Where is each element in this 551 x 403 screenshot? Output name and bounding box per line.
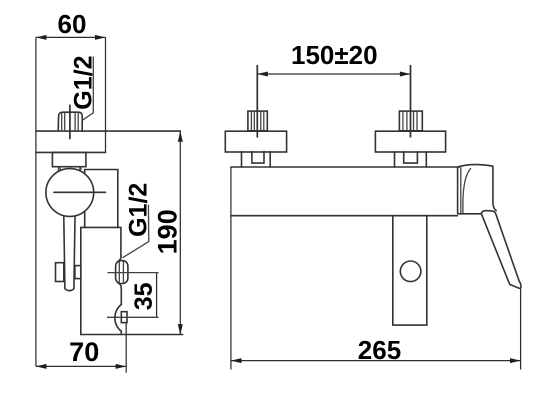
upper outlet neck bottom	[118, 283, 121, 305]
shower outlet drop tube	[393, 216, 427, 325]
arrow right of dim 70	[116, 364, 127, 369]
left inlet threaded block	[248, 111, 267, 131]
handle cap bottom line	[458, 213, 481, 215]
wire: long left vertical (extension line for 60 and 70, wall plate left edge)	[35, 37, 37, 366]
wire: 265 right extension	[520, 288, 522, 370]
right block thread lines	[403, 111, 417, 131]
left nipple inner U	[252, 152, 264, 164]
handle lever	[481, 211, 521, 289]
handle cap left edges	[457, 167, 459, 213]
faucet body top line	[231, 166, 460, 168]
arrow left of dim 60	[36, 35, 47, 40]
left block thread lines	[251, 111, 263, 131]
handle cap inner curve	[463, 168, 471, 213]
flange below plate	[52, 152, 86, 166]
fitting thread lines	[62, 112, 78, 131]
dimension 150±20 line	[257, 73, 410, 75]
lower body bottom right corner piece	[120, 331, 122, 334]
upper body rectangle	[85, 170, 118, 228]
arrow up of dim 190	[178, 131, 183, 142]
svg-text:60: 60	[58, 9, 87, 39]
arrow down of dim 190	[178, 324, 183, 335]
right nipple outer	[394, 152, 396, 167]
lower body right edge upper part	[120, 227, 122, 256]
dimension 35 vertical line	[156, 273, 158, 318]
wire: left inlet centerline	[256, 65, 258, 138]
handle boss right	[75, 266, 81, 279]
dimension 190 vertical line	[179, 131, 181, 335]
lower body left edge	[80, 227, 82, 334]
wire: body left edge + 265 left extension	[230, 167, 232, 370]
wire: right extension of 60 / plate right edge	[105, 37, 107, 152]
svg-text:35: 35	[130, 282, 158, 310]
wall plate bottom line	[36, 151, 106, 153]
svg-text:265: 265	[358, 335, 401, 365]
dimension 265 line	[231, 360, 521, 362]
svg-text:150±20: 150±20	[291, 40, 378, 70]
arrow left of dim 265	[231, 358, 242, 363]
upper outlet capsule (threaded, side)	[116, 261, 128, 284]
inlet fitting (side view, threaded)	[58, 112, 82, 131]
right nipple inner U	[404, 152, 418, 163]
upper outlet centerline	[108, 272, 159, 274]
knob centerline horizontal	[54, 191, 106, 193]
dimension 60 line	[36, 36, 106, 38]
handle rod	[64, 217, 75, 291]
lower outlet dome arc	[115, 305, 121, 332]
arrow right of dim 265	[510, 358, 521, 363]
right eccentric flange	[375, 131, 445, 152]
wire: right inlet centerline	[410, 65, 412, 138]
dimension 70 line	[36, 365, 126, 367]
upper outlet neck top	[118, 256, 121, 261]
arrow right of dim 150	[400, 72, 411, 77]
fitting centerline	[69, 105, 71, 140]
wall plate top line (extends right as 190 extension)	[36, 130, 181, 132]
body bottom line (extends right as 190 extension)	[81, 334, 183, 336]
right inlet threaded block	[399, 111, 422, 131]
left nipple outer	[241, 152, 243, 167]
valve knob circle	[46, 169, 94, 217]
lower outlet centerline	[107, 316, 158, 318]
handle boss left	[56, 263, 64, 282]
arrow left of dim 70	[36, 364, 47, 369]
svg-text:190: 190	[153, 209, 183, 254]
arrow right of dim 60	[95, 35, 106, 40]
capsule thread lines	[118, 261, 120, 283]
arrow left of dim 150	[257, 72, 268, 77]
tube circle detail	[400, 261, 421, 282]
handle cap outline	[458, 165, 497, 211]
leader for G1/2 lower	[123, 205, 149, 258]
lower outlet nipple rect	[121, 312, 127, 323]
wire: 70 right extension	[125, 323, 127, 373]
faucet body bottom line	[231, 215, 458, 217]
step line between body parts	[81, 226, 121, 228]
neck posts	[57, 167, 60, 173]
leader for G1/2 top	[82, 57, 93, 121]
svg-text:70: 70	[69, 337, 99, 367]
left eccentric flange	[225, 131, 286, 152]
